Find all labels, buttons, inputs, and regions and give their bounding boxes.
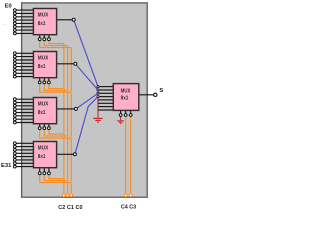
mux3 select pin circles	[38, 127, 50, 130]
mux1 input wires	[16, 10, 33, 33]
ground symbol right mux select	[117, 121, 124, 124]
svg-text:8x1: 8x1	[38, 21, 46, 27]
mux4 input pins E24-E31	[13, 142, 16, 168]
mux1 select pin circles	[38, 38, 50, 41]
mux4 output node	[73, 153, 76, 156]
mux4 body	[33, 142, 56, 168]
mux1 input pins E0-E7	[13, 9, 16, 35]
svg-text:MUX: MUX	[38, 55, 49, 61]
C2 rail	[63, 44, 65, 194]
svg-text:MUX: MUX	[38, 101, 49, 107]
svg-text:8x1: 8x1	[38, 64, 46, 70]
mux4 output wire	[57, 153, 74, 155]
U5 select stubs	[121, 110, 131, 113]
mux3 output wire	[57, 108, 75, 110]
ground symbol U5 inputs	[93, 118, 103, 122]
blue wire mux2 out to U5 in2	[75, 64, 98, 90]
MUX4 select wires	[40, 175, 71, 183]
ground wire (red) on U5 unused inputs	[97, 97, 99, 118]
svg-text:S: S	[159, 88, 163, 94]
U5 output wire	[139, 94, 154, 96]
U5 input wires	[98, 87, 113, 110]
svg-text:MUX: MUX	[38, 12, 49, 18]
C1 rail	[67, 46, 69, 194]
svg-text:MUX: MUX	[38, 145, 49, 151]
canvas background	[22, 3, 148, 197]
svg-text:8x1: 8x1	[121, 96, 129, 102]
MUX2 select wires	[40, 84, 71, 92]
C0 rail (vertical, rightmost of left group)	[70, 48, 72, 194]
right mux C4 select wire	[130, 116, 132, 193]
mux2 output wire	[57, 63, 74, 65]
mux2 output node	[74, 62, 77, 65]
mux3 input wires	[16, 99, 33, 122]
blue wire mux3 out to U5 in3	[76, 93, 98, 109]
mux1 output node	[72, 18, 75, 21]
MUX1 select wires (orange elbows)	[40, 41, 71, 48]
svg-text:C4 C3: C4 C3	[121, 205, 136, 211]
mux4 input wires	[16, 143, 33, 166]
mux2 select pin circles	[38, 81, 50, 84]
C4 pin circle	[129, 194, 132, 197]
output pin S circle	[154, 93, 157, 96]
C3 pin circle	[124, 194, 127, 197]
mux3 output node	[74, 107, 77, 110]
mux3 input pins E16-E23	[13, 98, 16, 124]
svg-text:...: ...	[3, 21, 7, 27]
blue wire mux4 out to U5 in4	[75, 97, 98, 155]
C2 pin circle	[63, 194, 66, 197]
mux3 body	[33, 98, 56, 124]
U5 input node dots	[97, 86, 99, 98]
U5 select pin circles	[119, 114, 132, 117]
mux3 select stubs	[40, 124, 49, 127]
mux4 select stubs	[40, 168, 49, 172]
svg-text:C2 C1 C0: C2 C1 C0	[58, 205, 82, 211]
MUX3 select wires	[40, 130, 71, 139]
mux2 input wires	[16, 53, 33, 76]
svg-text:8x1: 8x1	[38, 110, 46, 116]
mux1 output wire	[57, 19, 73, 21]
C0 pin circle	[70, 194, 73, 197]
mux1 body	[33, 9, 56, 35]
mux2 select stubs	[40, 78, 49, 81]
mux4 select pin circles	[38, 172, 50, 175]
svg-text:MUX: MUX	[121, 88, 131, 94]
right mux C3 select wire	[125, 116, 127, 193]
mux2 body	[33, 52, 56, 78]
blue wire mux1 out to U5 in1	[74, 20, 98, 87]
svg-text:8x1: 8x1	[38, 154, 46, 160]
mux1 select stubs	[40, 35, 49, 38]
U5 body	[113, 84, 139, 111]
right mux select S0 red wire	[120, 116, 122, 120]
svg-text:E0: E0	[5, 3, 12, 9]
rail junction dots	[63, 87, 72, 183]
C1 pin circle	[66, 194, 69, 197]
mux2 input pins E8-E15	[13, 52, 16, 78]
svg-text:E31: E31	[1, 163, 12, 169]
